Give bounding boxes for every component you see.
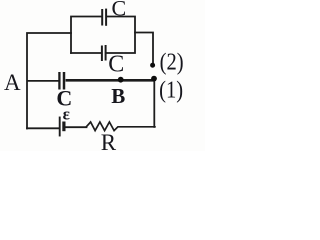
svg-text:C: C — [108, 52, 124, 78]
svg-text:(1): (1) — [159, 76, 183, 103]
svg-text:A: A — [4, 70, 21, 95]
svg-text:B: B — [111, 84, 125, 108]
svg-text:R: R — [101, 130, 117, 151]
svg-text:ε: ε — [63, 105, 70, 124]
svg-text:(2): (2) — [160, 48, 184, 75]
svg-text:C: C — [112, 0, 127, 21]
